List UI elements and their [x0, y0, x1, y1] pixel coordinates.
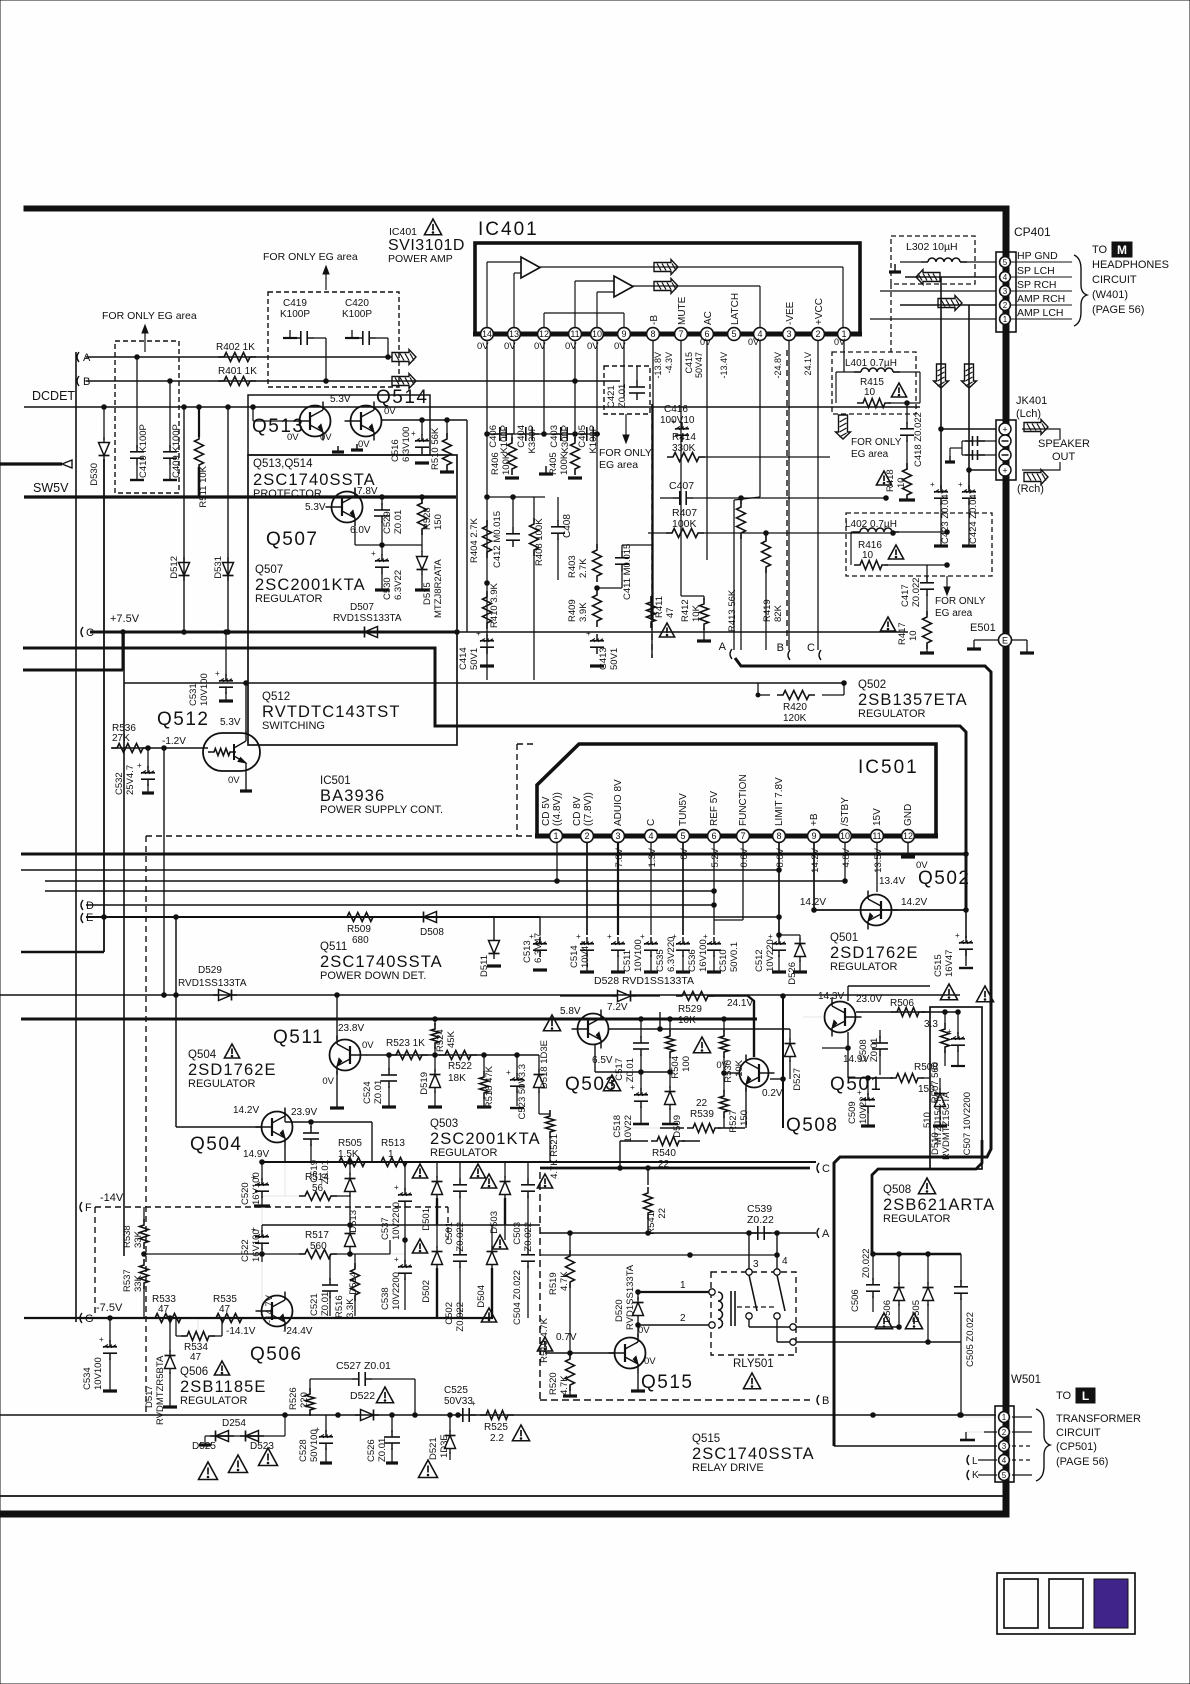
- svg-text:MTZJ8R2ATA: MTZJ8R2ATA: [433, 559, 444, 618]
- svg-text:0V: 0V: [287, 432, 299, 443]
- svg-text:C524: C524: [362, 1081, 373, 1104]
- diode D501: [432, 1182, 443, 1195]
- svg-text:R514: R514: [305, 1172, 329, 1183]
- svg-text:R525: R525: [484, 1422, 508, 1433]
- svg-text:D528 RVD1SS133TA: D528 RVD1SS133TA: [594, 975, 694, 987]
- svg-text:R404 2.7K: R404 2.7K: [469, 517, 480, 563]
- diode D514: [349, 1225, 351, 1230]
- wire pin7 drop: [680, 341, 682, 596]
- svg-text:+VCC: +VCC: [814, 298, 825, 325]
- wire pin4 drop: [759, 341, 761, 497]
- capacitor C417: [926, 565, 928, 578]
- capacitor C518: [640, 1072, 642, 1090]
- diode D502: [432, 1252, 443, 1265]
- CP401 pin 3: [1000, 286, 1011, 297]
- svg-text:SPEAKER: SPEAKER: [1038, 438, 1090, 450]
- svg-text:C411 M0.015: C411 M0.015: [622, 544, 633, 600]
- svg-text:0V: 0V: [700, 337, 711, 347]
- svg-text:D: D: [86, 900, 94, 912]
- page indicator square 2: [1049, 1579, 1083, 1628]
- svg-text:10: 10: [592, 329, 602, 339]
- IC401 internal wires: [540, 266, 843, 268]
- svg-text:EG area: EG area: [599, 459, 638, 471]
- capacitor C517: [640, 1019, 642, 1038]
- svg-text:GND: GND: [903, 804, 914, 826]
- svg-text:C537: C537: [380, 1217, 391, 1240]
- resistor R518: [482, 1053, 487, 1058]
- svg-text:R539: R539: [690, 1109, 714, 1120]
- wire G row: [24, 1317, 493, 1319]
- zener 510 MTZJ15CTA: [939, 1078, 941, 1090]
- node C hook bottom: [817, 1163, 819, 1173]
- svg-text:10V47: 10V47: [580, 941, 591, 968]
- svg-text:D527: D527: [792, 1068, 803, 1091]
- speaker bracket: [1022, 429, 1060, 440]
- resistor R540: [620, 1140, 648, 1142]
- svg-text:22: 22: [658, 1159, 670, 1170]
- capacitor C502: [459, 1248, 461, 1255]
- diode D531: [223, 563, 234, 576]
- pin 6 IC501: [708, 830, 721, 843]
- resistor R412: [703, 596, 705, 600]
- svg-text:AMP LCH: AMP LCH: [1017, 307, 1064, 319]
- svg-text:+: +: [630, 1083, 635, 1092]
- resistor R404 column: [486, 434, 488, 680]
- svg-text:C526: C526: [366, 1439, 377, 1462]
- svg-text:4: 4: [1002, 1456, 1007, 1465]
- svg-text:R506: R506: [890, 998, 914, 1009]
- resistor R413: [740, 498, 742, 504]
- svg-text:C: C: [822, 1163, 830, 1175]
- brace W501: [1036, 1409, 1050, 1481]
- svg-text:+: +: [947, 1027, 952, 1036]
- resistor R509: [341, 913, 379, 922]
- svg-text:5.8V: 5.8V: [560, 1006, 581, 1017]
- svg-text:D522: D522: [350, 1390, 375, 1402]
- svg-text:R504: R504: [670, 1056, 681, 1079]
- diode D509: [669, 1072, 671, 1088]
- capacitor C535: [650, 937, 652, 944]
- wire regulator row 2: [262, 1224, 540, 1226]
- W501 pin 2: [999, 1427, 1010, 1438]
- svg-text:D512: D512: [169, 556, 180, 579]
- W501 dashes right: [1012, 1416, 1032, 1418]
- wire A row bottom: [540, 1232, 816, 1234]
- svg-text:(PAGE 56): (PAGE 56): [1056, 1456, 1108, 1468]
- svg-text:Z0.022: Z0.022: [911, 577, 922, 607]
- svg-text:16V100: 16V100: [251, 1229, 262, 1262]
- svg-text:510: 510: [922, 1112, 933, 1128]
- wire Q504 emitter: [284, 1146, 286, 1162]
- ground small C row: [545, 466, 547, 474]
- op-amp U1b: [614, 276, 633, 297]
- svg-text:HP GND: HP GND: [1017, 250, 1058, 262]
- svg-text:1: 1: [1003, 315, 1008, 324]
- wire Q502 row: [814, 909, 966, 911]
- pin 3 IC501: [612, 830, 625, 843]
- IC501 block outline: [537, 744, 936, 836]
- svg-text:0.6V: 0.6V: [739, 847, 750, 867]
- resistor R418: [903, 463, 912, 501]
- wire D: [86, 904, 714, 906]
- diode D517: [169, 1318, 171, 1352]
- svg-text:C531: C531: [188, 683, 199, 706]
- svg-text:/STBY: /STBY: [840, 797, 851, 826]
- JK401 pin plus bottom: [999, 464, 1011, 476]
- svg-text:1: 1: [553, 831, 558, 841]
- svg-text:D521: D521: [428, 1437, 439, 1460]
- svg-text:POWER DOWN DET.: POWER DOWN DET.: [320, 970, 426, 982]
- warning triangle D521: [419, 1460, 438, 1478]
- svg-text:B: B: [777, 642, 784, 654]
- svg-text:R417: R417: [897, 622, 908, 645]
- svg-text:Q502: Q502: [858, 679, 886, 691]
- bus wire 3: [45, 880, 845, 882]
- hatched arrow Rch: [1024, 470, 1048, 485]
- svg-text:FOR ONLY: FOR ONLY: [599, 447, 652, 459]
- svg-text:0V: 0V: [322, 1076, 334, 1087]
- junction dot B-C409: [168, 379, 173, 384]
- junction dot D529 line: [335, 993, 340, 998]
- node A hook bottom: [817, 1228, 819, 1238]
- svg-text:CD 5V: CD 5V: [541, 796, 552, 826]
- svg-text:Z0.01: Z0.01: [393, 510, 404, 534]
- hatched arrow down b: [962, 364, 977, 388]
- svg-text:2SD1762E: 2SD1762E: [188, 1061, 277, 1079]
- pin 11 IC401: [569, 328, 582, 341]
- warning triangles diodes: [875, 1313, 892, 1329]
- svg-text:5: 5: [731, 329, 736, 339]
- CP401 pin 5: [1000, 257, 1011, 268]
- svg-text:AC: AC: [703, 311, 714, 325]
- svg-text:10: 10: [908, 630, 919, 641]
- svg-text:8.0V: 8.0V: [775, 847, 786, 867]
- svg-text:45K: 45K: [446, 1030, 457, 1048]
- svg-text:C529: C529: [382, 511, 393, 534]
- svg-text:BA3936: BA3936: [320, 787, 385, 805]
- CP401 connector box: [996, 252, 1016, 332]
- svg-text:+: +: [857, 1088, 862, 1097]
- hatched arrow IC401 a: [654, 260, 678, 275]
- svg-text:5.2V: 5.2V: [710, 847, 721, 867]
- left vertical x124: [123, 632, 125, 1256]
- svg-text:10V2200: 10V2200: [391, 1272, 402, 1310]
- svg-text:D520: D520: [614, 1299, 625, 1322]
- svg-text:(PAGE 56): (PAGE 56): [1092, 304, 1144, 316]
- svg-text:L: L: [1082, 1389, 1089, 1403]
- capacitor C507: [957, 1012, 959, 1034]
- svg-text:OUT: OUT: [1052, 451, 1076, 463]
- hatched arrow down a: [934, 364, 949, 388]
- svg-text:C415: C415: [684, 352, 694, 374]
- svg-text:+: +: [672, 932, 677, 941]
- svg-text:R528: R528: [422, 507, 433, 530]
- svg-text:Q506: Q506: [250, 1344, 302, 1365]
- svg-text:2.2: 2.2: [490, 1433, 504, 1444]
- vertical wire x176: [175, 917, 177, 1127]
- junction dots bottom wire: [283, 1413, 288, 1418]
- svg-text:R516: R516: [334, 1295, 345, 1318]
- resistor R524: [433, 1053, 438, 1058]
- wire Q507 emitter down: [354, 527, 356, 545]
- svg-text:K330P: K330P: [527, 425, 538, 454]
- transistor Q504: [262, 1112, 293, 1143]
- svg-text:1D3E: 1D3E: [439, 1434, 450, 1458]
- svg-text:16V47: 16V47: [944, 950, 955, 977]
- svg-text:Q507: Q507: [266, 529, 318, 550]
- svg-text:2: 2: [584, 831, 589, 841]
- wire AMP RCH left: [900, 304, 996, 306]
- svg-text:R527: R527: [728, 1110, 739, 1133]
- svg-text:Z0.01: Z0.01: [373, 1080, 384, 1104]
- svg-text:1: 1: [1002, 1413, 1007, 1422]
- svg-text:D254: D254: [222, 1418, 246, 1429]
- svg-text:Q507: Q507: [255, 564, 283, 576]
- svg-text:6.3V22: 6.3V22: [393, 570, 404, 600]
- svg-text:-4.3V: -4.3V: [664, 352, 674, 374]
- svg-text:5.3V: 5.3V: [220, 717, 241, 728]
- W501 pin 4: [999, 1455, 1010, 1466]
- resistor R410: [483, 591, 492, 629]
- svg-text:0V: 0V: [362, 1040, 374, 1051]
- svg-text:10K: 10K: [678, 1015, 696, 1026]
- svg-text:150: 150: [739, 1110, 750, 1126]
- capacitor C536: [682, 937, 684, 944]
- svg-text:-13.4V: -13.4V: [719, 352, 729, 379]
- pin 8 IC401: [647, 328, 660, 341]
- svg-text:C507 10V2200: C507 10V2200: [962, 1092, 973, 1155]
- wire C531 column: [225, 632, 227, 676]
- warning triangle Q503 area: [693, 1037, 710, 1053]
- dashed box L402: [846, 513, 992, 576]
- pin 14 IC401: [481, 328, 494, 341]
- svg-text:2SB1185E: 2SB1185E: [180, 1378, 266, 1396]
- svg-text:IC501: IC501: [320, 775, 351, 787]
- svg-text:C419: C419: [283, 298, 307, 309]
- resistor R403 column: [596, 434, 598, 548]
- diode D507: [365, 627, 378, 638]
- wire A thick right: [735, 658, 991, 1446]
- svg-text:C527 Z0.01: C527 Z0.01: [336, 1360, 391, 1372]
- capacitor C510: [713, 937, 715, 944]
- dashed box EG left: [115, 341, 179, 493]
- bottom thin line: [0, 1495, 1005, 1497]
- capacitor C423: [940, 489, 942, 532]
- transistor Q515: [615, 1338, 646, 1369]
- capacitor C529: [381, 497, 383, 505]
- svg-text:R537: R537: [122, 1269, 133, 1292]
- svg-text:-7.5V: -7.5V: [96, 1302, 123, 1314]
- svg-text:((7.8V)): ((7.8V)): [583, 792, 594, 826]
- svg-text:D511: D511: [479, 955, 490, 977]
- svg-text:33K: 33K: [133, 1230, 144, 1248]
- svg-text:R509: R509: [347, 924, 371, 935]
- transistor Q501: [825, 1002, 856, 1033]
- svg-text:RLY501: RLY501: [733, 1358, 774, 1370]
- svg-text:2SB621ARTA: 2SB621ARTA: [883, 1196, 995, 1214]
- svg-text:C407: C407: [669, 480, 694, 492]
- svg-text:6.3V100: 6.3V100: [401, 427, 412, 462]
- svg-text:+: +: [506, 1068, 511, 1077]
- bus wire thick lower: [21, 1018, 757, 1021]
- wire Q513 base: [252, 407, 254, 421]
- svg-text:50V1: 50V1: [609, 648, 620, 670]
- svg-text:D517: D517: [144, 1385, 155, 1408]
- svg-text:2: 2: [815, 329, 820, 339]
- svg-text:E: E: [1002, 636, 1008, 646]
- JK401 pin minus 1: [999, 435, 1011, 447]
- wire D529 line: [0, 994, 960, 996]
- svg-text:C406: C406: [488, 425, 499, 448]
- svg-text:C409 K100P: C409 K100P: [171, 424, 182, 478]
- svg-text:R410 3.9K: R410 3.9K: [489, 582, 500, 628]
- R521 label: [539, 1113, 550, 1115]
- svg-text:7.8V: 7.8V: [614, 847, 625, 867]
- capacitor C503: [527, 1178, 529, 1185]
- diode D521: [449, 1415, 451, 1432]
- svg-text:Z0.01: Z0.01: [625, 1058, 636, 1082]
- svg-text:CIRCUIT: CIRCUIT: [1056, 1427, 1101, 1439]
- svg-text:Z0.01: Z0.01: [617, 384, 628, 408]
- svg-text:Q511: Q511: [320, 941, 347, 953]
- svg-text:((4.8V)): ((4.8V)): [552, 792, 563, 826]
- resistor R519b: [569, 1233, 571, 1255]
- diode D504: [487, 1252, 498, 1265]
- IC401 block outline: [475, 243, 860, 334]
- svg-text:K100P: K100P: [280, 309, 310, 320]
- warning triangle R418: [876, 471, 891, 485]
- svg-text:3: 3: [786, 329, 791, 339]
- svg-text:D519: D519: [419, 1072, 430, 1095]
- diode D511: [493, 917, 495, 935]
- pin 11 IC501: [871, 830, 884, 843]
- warning triangle IC401: [424, 219, 441, 235]
- junction dots C line: [121, 630, 126, 635]
- svg-text:C522: C522: [240, 1239, 251, 1262]
- svg-text:24.1V: 24.1V: [803, 352, 813, 376]
- svg-text:Q514: Q514: [376, 387, 428, 408]
- svg-text:4: 4: [1003, 273, 1008, 282]
- CP401 pin 4: [1000, 272, 1011, 283]
- svg-text:C410 K100P: C410 K100P: [138, 424, 149, 478]
- svg-text:0.2V: 0.2V: [762, 1088, 783, 1099]
- capacitor C531: [225, 632, 227, 676]
- svg-text:14.2V: 14.2V: [233, 1105, 259, 1116]
- wire SW5V thick: [24, 495, 456, 498]
- svg-text:47: 47: [158, 1304, 170, 1315]
- capacitor C530: [381, 545, 383, 555]
- svg-text:2.7K: 2.7K: [578, 558, 589, 578]
- capacitor C412: [512, 527, 514, 534]
- svg-text:C518: C518: [612, 1115, 623, 1138]
- svg-text:LATCH: LATCH: [730, 293, 741, 325]
- svg-text:9: 9: [621, 329, 626, 339]
- svg-text:47: 47: [190, 1352, 202, 1363]
- svg-text:100: 100: [681, 1056, 692, 1072]
- svg-text:+: +: [476, 629, 481, 638]
- pin 3 IC401: [783, 328, 796, 341]
- resistor R537: [140, 1259, 149, 1289]
- svg-text:Q506: Q506: [180, 1366, 208, 1378]
- resistor R535: [210, 1314, 248, 1323]
- diode D530: [103, 407, 105, 440]
- wire +B rail down: [782, 996, 784, 1128]
- svg-text:C: C: [646, 819, 657, 826]
- svg-text:10: 10: [862, 550, 874, 561]
- W501 pin 5: [999, 1470, 1010, 1481]
- wire 2SB621 row: [872, 1253, 961, 1255]
- JK401 pin plus top: [999, 423, 1011, 435]
- resistor R523: [390, 1051, 428, 1060]
- svg-text:REGULATOR: REGULATOR: [430, 1147, 497, 1159]
- svg-text:(CP501): (CP501): [1056, 1441, 1097, 1453]
- svg-text:R529: R529: [678, 1004, 702, 1015]
- svg-text:R405: R405: [548, 452, 559, 475]
- node G label: [80, 1313, 82, 1323]
- capacitor C523: [515, 1053, 520, 1058]
- svg-text:23.8V: 23.8V: [338, 1023, 364, 1034]
- node B hook mid: [788, 650, 790, 660]
- svg-text:C: C: [807, 642, 815, 654]
- svg-text:D531: D531: [213, 556, 224, 579]
- svg-text:C418 Z0.022: C418 Z0.022: [913, 412, 924, 467]
- svg-text:Q504: Q504: [188, 1049, 217, 1061]
- pin drop wires IC401: [486, 341, 488, 434]
- svg-text:2: 2: [680, 1313, 686, 1324]
- svg-text:6: 6: [711, 831, 716, 841]
- svg-text:R420: R420: [783, 702, 807, 713]
- IC501 GND pin ground: [907, 843, 909, 856]
- resistor R510: [446, 420, 448, 437]
- diode D526: [799, 935, 801, 940]
- svg-text:5: 5: [1002, 1471, 1007, 1480]
- op-amp U1a: [521, 257, 540, 278]
- svg-text:POWER AMP: POWER AMP: [388, 253, 453, 265]
- pin 7 IC401: [675, 328, 688, 341]
- svg-text:C513: C513: [522, 940, 533, 963]
- capacitor C508: [879, 1030, 881, 1038]
- resistor R536: [111, 744, 149, 753]
- vertical wires component grid: [404, 1162, 406, 1190]
- pin 1 IC401: [838, 328, 851, 341]
- capacitor C522: [261, 1225, 263, 1232]
- svg-text:R526: R526: [288, 1387, 299, 1410]
- diode D527: [789, 1029, 791, 1040]
- svg-text:Q512: Q512: [262, 691, 290, 703]
- capacitor C414: [486, 634, 488, 641]
- diode D519: [434, 1055, 436, 1072]
- svg-text:13.5V: 13.5V: [873, 847, 884, 872]
- resistor R539: [660, 1127, 684, 1129]
- Q504 collector wire: [284, 1112, 286, 1122]
- svg-text:100K: 100K: [501, 452, 512, 475]
- dashed F box: [95, 1206, 448, 1208]
- transistor Q507: [332, 492, 363, 523]
- svg-text:C538: C538: [380, 1287, 391, 1310]
- svg-text:C515: C515: [933, 954, 944, 977]
- pin 2 IC401: [812, 328, 825, 341]
- dashed box C419 C420: [268, 292, 399, 387]
- svg-text:R505: R505: [338, 1138, 362, 1149]
- svg-text:3.9K: 3.9K: [578, 602, 589, 622]
- svg-text:(Rch): (Rch): [1017, 483, 1044, 495]
- svg-text:D515: D515: [422, 582, 433, 605]
- svg-text:R523 1K: R523 1K: [386, 1038, 425, 1049]
- svg-text:8: 8: [650, 329, 655, 339]
- svg-text:4.7K R521: 4.7K R521: [549, 1134, 560, 1179]
- svg-text:0V: 0V: [644, 1356, 656, 1367]
- svg-text:13.4V: 13.4V: [879, 876, 905, 887]
